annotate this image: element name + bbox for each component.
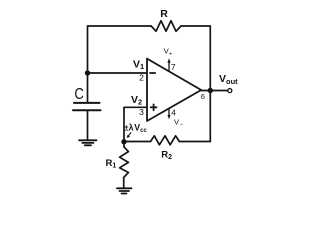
wire R1 bottom lead [123,178,125,188]
svg-text:V1: V1 [133,59,144,72]
node V1 junction [85,70,90,75]
ground (below R1) [117,188,132,193]
svg-text:V+: V+ [164,47,172,58]
resistor R [151,8,181,31]
wire left feedback (node up and across to R) [88,26,152,73]
node output junction [208,88,213,93]
wire to output terminal [210,90,227,92]
ground (below C) [79,140,97,145]
svg-text:C: C [74,86,84,103]
wire top right + right vertical down to output node [181,26,210,91]
wire op-amp output stub [201,90,210,92]
svg-text:2: 2 [139,73,144,83]
svg-text:V−: V− [174,118,183,129]
svg-text:V2: V2 [131,94,142,107]
svg-text:Vout: Vout [219,73,238,86]
capacitor C [73,73,101,140]
svg-text:R1: R1 [106,158,117,169]
wire R2 right lead up to output node [179,91,210,142]
svg-text:4: 4 [171,107,176,117]
svg-text:R2: R2 [161,150,172,161]
resistor R2 [151,136,180,161]
svg-text:7: 7 [171,62,176,72]
output terminal [228,89,232,93]
svg-text:R: R [160,8,168,20]
resistor R1 [106,142,129,178]
svg-text:3: 3 [139,107,144,117]
svg-text:±λVcc: ±λVcc [124,123,147,134]
pin 4 V- supply [167,107,183,128]
op-amp U1 [147,59,201,121]
pin 7 V+ supply [164,47,176,72]
wire V1 input [88,72,148,74]
wire R2 left lead [124,141,151,143]
label lambda Vcc with pointer arrow [124,123,147,139]
wire V2 input L [124,107,147,141]
node feedback junction [121,139,126,144]
svg-text:6: 6 [201,92,205,101]
